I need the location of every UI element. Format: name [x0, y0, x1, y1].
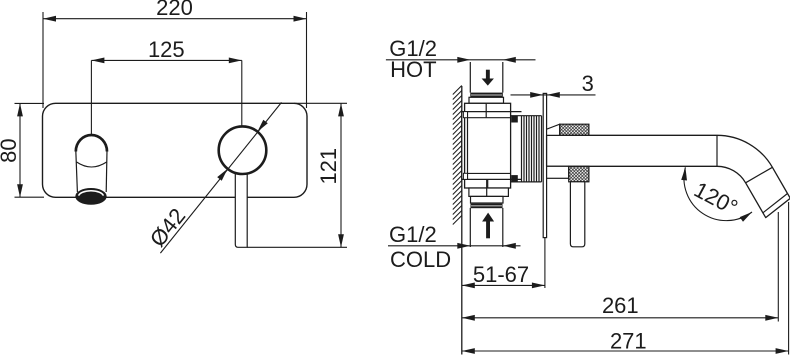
hot inlet pipe	[470, 62, 503, 93]
dimension 220 top width	[43, 0, 307, 108]
handle lever (front view)	[235, 170, 247, 247]
spout body (front view)	[76, 135, 107, 192]
svg-text:261: 261	[602, 293, 639, 318]
dimension 80 plate height	[0, 103, 44, 197]
svg-text:3: 3	[582, 71, 594, 96]
hot pipe collar	[469, 97, 504, 103]
dimension 51-67 install depth	[462, 238, 545, 289]
dimension 120 degree spout angle	[681, 167, 752, 222]
label G1/2 HOT	[386, 36, 536, 82]
cold pipe collar	[469, 179, 509, 203]
hot pipe thread dark band	[470, 93, 503, 98]
hot flow arrow (down)	[482, 70, 494, 86]
dimension 3 plate thickness	[511, 71, 596, 98]
svg-text:HOT: HOT	[390, 57, 436, 82]
cartridge threaded section	[511, 116, 542, 182]
svg-text:271: 271	[610, 328, 647, 353]
handle knurled collar	[569, 166, 589, 182]
handle circle (front view)	[219, 126, 267, 174]
svg-text:125: 125	[148, 37, 185, 62]
valve body block	[462, 103, 522, 188]
cold flow arrow (up)	[482, 213, 494, 239]
cover plate (side view)	[543, 93, 546, 237]
handle base block	[547, 166, 569, 178]
svg-text:COLD: COLD	[390, 247, 451, 272]
svg-text:G1/2: G1/2	[389, 222, 437, 247]
spout outlet dark ellipse	[75, 188, 106, 205]
cold pipe thread dark band	[471, 204, 503, 209]
svg-text:51-67: 51-67	[473, 262, 529, 287]
label G1/2 COLD	[388, 222, 521, 272]
faucet wall plate (front view)	[43, 103, 308, 197]
dimension 125 spout offset	[91, 37, 241, 134]
svg-text:220: 220	[156, 0, 193, 20]
dimension 121 total height	[247, 103, 347, 247]
svg-text:121: 121	[316, 148, 341, 185]
cold inlet pipe	[470, 208, 503, 247]
dimension 271 total reach	[462, 202, 789, 355]
spout tube with elbow (side view)	[547, 135, 790, 217]
spout knurled nut	[560, 124, 589, 135]
spout mounting cone	[547, 124, 560, 135]
handle lever (side view)	[570, 182, 584, 247]
svg-text:80: 80	[0, 138, 21, 162]
dimension 261 spout reach	[462, 212, 779, 322]
wall section line with hatching	[453, 86, 462, 355]
dimension diameter 42 leader	[145, 102, 282, 253]
